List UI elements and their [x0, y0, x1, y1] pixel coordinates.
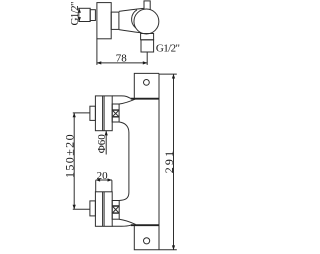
front view: lower body corner curve — [119, 193, 129, 201]
dimension 150±20: extension ticks — [73, 112, 90, 114]
front view: lower cartridge column — [112, 201, 119, 220]
front view: upper valve cap — [90, 106, 96, 120]
svg-text:78: 78 — [116, 53, 128, 65]
front view: central body left edge — [128, 133, 130, 193]
front view: lower X cross — [112, 206, 119, 213]
dimension 78: extension lines — [96, 39, 98, 65]
front view: bottom bracket hole — [144, 238, 150, 244]
svg-text:G1/2": G1/2" — [156, 42, 180, 54]
dimension 291: arrowheads — [172, 74, 175, 250]
front view: upper outer S-curve to wall bracket — [112, 96, 131, 99]
dimension 20: line — [96, 179, 112, 181]
front view: upper X cross — [112, 110, 119, 117]
svg-text:291: 291 — [162, 149, 176, 174]
front view: lower handle — [95, 192, 112, 227]
front view: bottom bracket — [134, 225, 159, 250]
front view: upper handle groove — [103, 96, 105, 131]
dimension arrows on nipple (thread size) — [78, 8, 81, 22]
dimension 291: extension lines — [159, 73, 177, 75]
top view: valve body rectangle — [97, 3, 111, 39]
front view: upper handle — [95, 96, 112, 131]
front view: wall plate right edge — [158, 73, 160, 249]
dimension 20: arrowheads — [96, 178, 113, 181]
front view: top bracket hole — [144, 80, 150, 86]
dimension Φ60: arrowhead — [105, 131, 108, 136]
front view: upper cartridge column — [112, 104, 119, 122]
svg-text:Φ60: Φ60 — [96, 134, 108, 154]
svg-text:G1/2": G1/2" — [69, 2, 81, 26]
top view: horn bottom line — [119, 30, 141, 33]
top view: neck between body and knob — [111, 12, 119, 29]
front view: upper body corner curve — [119, 122, 129, 133]
dimension 78: line — [97, 62, 147, 64]
svg-text:20: 20 — [97, 170, 109, 182]
top view: knob circle — [134, 9, 159, 34]
dimension 150±20: line — [73, 113, 75, 209]
front view: top bracket — [134, 73, 159, 98]
top view: inlet collar — [90, 10, 95, 21]
front view: lower handle groove — [103, 192, 105, 227]
front view: lower outer S-curve to wall bracket — [112, 225, 131, 226]
dimension 291: line — [173, 74, 175, 250]
top view: outlet collar — [141, 34, 154, 40]
front view: upper inner S-curve — [119, 99, 136, 104]
front view: lower inner S-curve — [119, 219, 135, 224]
top view: inlet nipple G1/2 — [79, 8, 90, 21]
front view: lower valve cap — [90, 201, 96, 216]
dimension 78: arrowheads — [97, 61, 148, 64]
svg-text:150±20: 150±20 — [63, 133, 77, 178]
top view: knob skirt crescent arc — [132, 10, 137, 28]
top view: horn top line — [119, 8, 144, 11]
dimension Φ60: leader line — [105, 131, 107, 155]
dimension 20: extension lines — [95, 180, 97, 192]
top view: outlet body — [141, 40, 154, 52]
dimension 150±20: arrowheads — [73, 113, 76, 210]
top view: lever on knob — [144, 1, 150, 11]
